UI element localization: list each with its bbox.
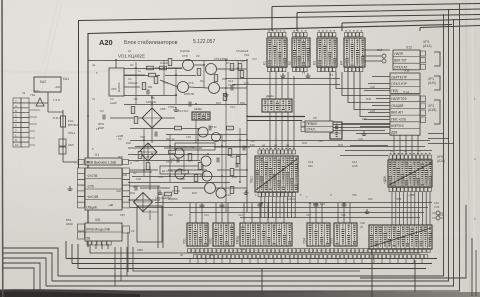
- wire bottom bus A: [66, 241, 437, 259]
- bridge rectifier VD5: [142, 108, 162, 128]
- wire top bus 5: [420, 26, 480, 32]
- wire right bus 5: [360, 205, 466, 278]
- connector X2 left двухрядный: [13, 98, 29, 147]
- wire К stair 5: [360, 72, 390, 117]
- connector X1 top row: [85, 158, 122, 165]
- resistor Rj: [236, 157, 240, 164]
- pin row below X51: [87, 241, 111, 245]
- pin row above ХШ1: [258, 148, 295, 154]
- capacitor C1: [103, 115, 105, 120]
- wire stubs into X11 X14: [356, 77, 390, 134]
- wire bottom bus C: [78, 244, 426, 269]
- wire X14 to ДОК drops: [394, 135, 418, 155]
- wire analog row 1: [124, 65, 247, 75]
- relay block ОБЩ: [236, 223, 293, 246]
- wire analog row 3: [128, 147, 247, 148]
- pin row below К4: [345, 68, 363, 72]
- resistor R16b: [174, 187, 178, 194]
- pin X14b: [421, 103, 426, 109]
- wire EA1 down: [29, 92, 48, 112]
- wire top bus 2: [272, 4, 480, 32]
- mini block ДЕМА: [262, 99, 292, 112]
- wire drops from bottom pin rows: [190, 259, 422, 264]
- wire К stair 1: [336, 72, 390, 89]
- transistor VT14: [175, 169, 185, 179]
- capacitor on riser 3: [258, 204, 263, 206]
- ground analog d: [243, 190, 248, 195]
- wire К stair 3: [348, 72, 390, 103]
- ground X1: [67, 186, 72, 191]
- relay block У55: [330, 223, 358, 246]
- wire top bus 4: [342, 19, 480, 31]
- wire stubs to right bus: [428, 134, 454, 144]
- transformer block T1: [85, 168, 122, 210]
- wire analog verticals: [184, 60, 226, 212]
- connector ДОК: [388, 160, 432, 187]
- resistor R5: [238, 64, 242, 71]
- resistor R7: [142, 83, 146, 90]
- capacitor C12: [231, 86, 233, 91]
- connector X51: [85, 223, 122, 241]
- resistor R12: [188, 154, 192, 161]
- wire mid bus 3: [247, 116, 305, 118]
- resistor R1: [147, 66, 154, 70]
- wire analog grid a: [124, 69, 196, 76]
- wire to fuse: [48, 111, 63, 113]
- relay block У54: [303, 223, 331, 246]
- capacitor Cb: [209, 126, 211, 131]
- pin row below К3: [318, 68, 336, 72]
- wire mid bus 4: [155, 202, 432, 204]
- relay block К3: [313, 38, 338, 67]
- resistor R17: [230, 187, 234, 194]
- resistor Re: [134, 117, 138, 124]
- capacitor Ce: [177, 158, 179, 163]
- bridge rectifier VD7: [134, 193, 153, 212]
- wire X5 to right: [333, 125, 390, 131]
- wire to bottom edge 2: [371, 232, 373, 297]
- wire analog verticals b: [136, 60, 238, 104]
- box ХЗ ДУВЛ: [175, 143, 215, 150]
- pin row above К1: [268, 31, 286, 37]
- relay block У52: [209, 223, 235, 246]
- box under VD7: [137, 206, 162, 242]
- wire X51 pin drops: [96, 244, 108, 249]
- connector ХШ1: [255, 156, 298, 192]
- pin row below ДОК block: [389, 188, 431, 192]
- ground analog c: [157, 190, 162, 195]
- wire mains to X1: [63, 110, 77, 162]
- resistor R2: [160, 66, 167, 70]
- wire ДОК drops: [392, 192, 430, 225]
- connector X14: [390, 95, 420, 135]
- mini block ДЕМА divider: [262, 105, 292, 107]
- resistor Rk: [165, 192, 172, 196]
- resistor Rl: [230, 169, 234, 176]
- pin X12c: [421, 64, 426, 69]
- wire mid bus 1: [130, 140, 430, 142]
- resistor Rc: [214, 75, 218, 82]
- resistor Ra: [149, 73, 156, 77]
- capacitor C14: [236, 163, 238, 168]
- relay block У51: [183, 223, 209, 246]
- wire bridge VD5 taps: [110, 97, 175, 143]
- wire analog grid c: [130, 129, 247, 135]
- transistor VT13: [174, 148, 184, 158]
- pin column X1 right: [123, 168, 130, 208]
- resistor Ri: [198, 163, 202, 170]
- mini block АЕМА: [192, 112, 210, 120]
- transistor VT17: [216, 188, 226, 198]
- wire bottom bus B: [72, 244, 432, 264]
- transistor VT6: [178, 82, 189, 93]
- wire X51 down: [127, 232, 129, 272]
- pin X51 b: [78, 232, 85, 239]
- wire mid bus 2: [135, 146, 425, 148]
- resistor R4: [230, 64, 234, 71]
- wire to bottom edge 3: [414, 260, 416, 292]
- wire analog to К row: [225, 79, 340, 85]
- bracket XP1b: [434, 76, 440, 90]
- wire analog row 4: [130, 169, 247, 171]
- ground analog a: [173, 107, 178, 112]
- bottom scan band: [0, 289, 480, 297]
- mini block X5: [305, 121, 333, 132]
- wire X1 right outputs: [130, 172, 161, 200]
- wire right bus 6: [471, 238, 473, 296]
- transistor VT7: [209, 83, 220, 94]
- bracket XP1c: [434, 100, 440, 124]
- relay block К4: [340, 38, 366, 67]
- warning triangle: [36, 98, 44, 106]
- capacitor Cg: [217, 158, 219, 163]
- wire analog grid e: [128, 177, 247, 183]
- wire bottom loop 5: [3, 268, 34, 293]
- ground analog b: [223, 92, 228, 97]
- pin X14a: [421, 96, 426, 102]
- left scan edge line: [1, 0, 4, 297]
- capacitor Cd: [243, 146, 245, 151]
- connector bottom right: [369, 225, 432, 249]
- resistor Rh: [146, 163, 150, 170]
- capacitor on riser 4: [314, 204, 319, 206]
- wire analog grid b: [124, 96, 247, 105]
- pin column X1 left: [78, 168, 85, 208]
- wire analog row 5: [140, 187, 247, 189]
- wire mid bus 6: [190, 212, 424, 214]
- transistor VT8: [183, 60, 194, 71]
- pin row below К1: [268, 68, 286, 72]
- terminal strip row 2: [194, 255, 428, 259]
- block A20 frame: [88, 25, 452, 248]
- pin X51 c: [123, 226, 130, 233]
- wire mid bus 5: [130, 207, 428, 209]
- wire right bus 7: [475, 250, 477, 296]
- wire bridge VD7 taps: [128, 166, 160, 200]
- pin X51 a: [78, 224, 85, 231]
- wire mid bus 3b: [247, 120, 302, 122]
- wire inner staircase: [115, 186, 360, 286]
- wire analog verticals c: [144, 128, 240, 188]
- wire ХШ1 drops: [261, 197, 295, 218]
- transistor VT16: [205, 183, 216, 194]
- wire outer frame left vertical: [78, 21, 80, 169]
- connector X12: [393, 50, 420, 70]
- resistor R13: [228, 149, 232, 156]
- scattered component value labels: [22, 49, 476, 257]
- wire bottom bus D: [90, 244, 420, 253]
- wire in box: [142, 210, 158, 220]
- transistor VT11: [198, 127, 208, 137]
- resistor R3: [197, 69, 201, 76]
- ground below К2: [305, 73, 310, 78]
- wire inner frame vertical: [246, 60, 248, 212]
- variable resistor ФР1a: [436, 211, 440, 215]
- wire connector stubs: [29, 110, 40, 145]
- resistor R9: [223, 94, 227, 101]
- wire into ДОК: [340, 146, 432, 156]
- wire top bus 1: [78, 15, 480, 21]
- variable resistor ФР1b: [436, 216, 440, 220]
- wire top rail analog: [88, 61, 247, 69]
- capacitor on riser 2: [220, 205, 225, 207]
- resistor R15b: [194, 175, 198, 182]
- box EA1: [34, 77, 61, 92]
- bracket XP1: [434, 52, 440, 66]
- terminal strip row 1: [188, 249, 431, 253]
- resistor R14: [182, 170, 189, 174]
- wire mid bus 7: [240, 217, 420, 219]
- pin row above К3: [318, 31, 336, 37]
- pin row below ХШ1: [258, 193, 295, 197]
- capacitor C6: [147, 90, 149, 95]
- wire analog grid d: [128, 155, 247, 161]
- ground mid: [361, 131, 366, 136]
- connector А5Л: [59, 147, 66, 154]
- resistor R8: [131, 107, 135, 114]
- transistor VT13b: [201, 156, 211, 166]
- ground below К1: [280, 73, 285, 78]
- resistor R11: [169, 150, 176, 154]
- connector ХР11: [59, 139, 66, 146]
- pin X12a: [421, 51, 426, 56]
- wire risers from bottom blocks: [190, 203, 350, 223]
- resistor R6: [154, 77, 158, 84]
- terminal stack rows: [330, 128, 342, 134]
- wire К stair 4: [354, 72, 390, 110]
- capacitor Ca: [189, 102, 191, 107]
- relay block К1: [263, 38, 288, 67]
- pin row above ДОК block: [389, 153, 431, 159]
- transistor VT9: [206, 64, 217, 75]
- variable resistor R16: [382, 59, 386, 63]
- box ДУ СТАБ label: [160, 166, 203, 174]
- capacitor Cf: [135, 186, 137, 191]
- wire К drops to ХШ1: [270, 72, 294, 150]
- wire top bus 3: [297, 9, 480, 31]
- pin X5 a: [301, 122, 305, 127]
- pin row above К2: [293, 31, 308, 37]
- resistor Rd: [240, 71, 244, 78]
- pin X1 right 3: [123, 160, 129, 165]
- terminal stack: [330, 122, 342, 139]
- wire to X12: [362, 50, 390, 61]
- ground bottom row: [364, 209, 369, 214]
- resistor Rf: [175, 126, 182, 130]
- variable resistor R15: [382, 54, 386, 58]
- wire ФР1 leads: [432, 213, 444, 218]
- capacitor Cc: [155, 132, 157, 137]
- pin row above К4: [345, 31, 363, 37]
- pin X14d: [421, 117, 426, 123]
- bridge rectifier VD6: [139, 143, 157, 161]
- capacitor on riser 1: [200, 205, 205, 207]
- resistor Rg: [227, 126, 234, 130]
- resistor Rb: [168, 59, 172, 66]
- rectifier VD3: [109, 68, 124, 96]
- fuse FU1: [61, 116, 66, 127]
- pin X14c: [421, 110, 426, 116]
- wire analog row 2: [124, 80, 247, 88]
- wire К stair 6: [330, 72, 390, 124]
- transistor VT15: [202, 171, 212, 181]
- relay block К2: [288, 38, 311, 67]
- resistor R10: [138, 152, 142, 159]
- pin X12b: [421, 58, 426, 63]
- wire to bottom edge 1: [261, 268, 263, 297]
- pin X5 b: [301, 127, 305, 132]
- pin row below К2: [293, 68, 308, 72]
- transistor VT12: [212, 133, 221, 142]
- wire К stair 2: [342, 72, 390, 96]
- capacitor on riser 5: [342, 204, 347, 206]
- connector X11: [390, 73, 420, 93]
- pin X1 left 7: [78, 160, 84, 165]
